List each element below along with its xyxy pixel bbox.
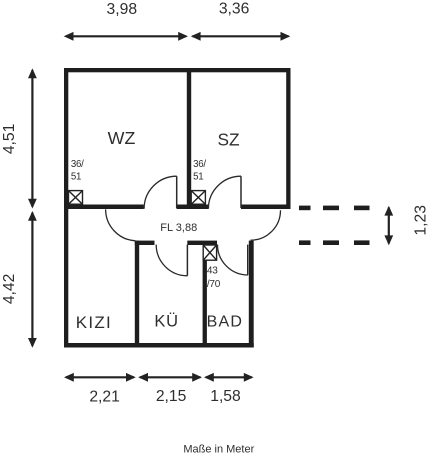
wall: top outer — [64, 68, 291, 72]
wall: SZ bottom segment — [241, 205, 291, 210]
door WZ: swing arc — [144, 176, 177, 209]
wall: FL top, middle segment — [177, 205, 209, 210]
svg-text:WZ: WZ — [108, 128, 136, 148]
door entrance: swing arc — [251, 210, 281, 240]
svg-text:Maße in Meter: Maße in Meter — [183, 444, 254, 456]
wall: right outer lower (BAD) — [249, 241, 254, 348]
svg-text:1,23: 1,23 — [412, 205, 429, 236]
svg-text:FL 3,88: FL 3,88 — [160, 222, 197, 234]
door SZ: leaf — [240, 176, 242, 208]
door BAD: leaf — [247, 245, 249, 275]
svg-text:2,21: 2,21 — [89, 389, 120, 406]
wall: FL bottom, segment B — [187, 241, 217, 245]
svg-text:KIZI: KIZI — [76, 313, 112, 332]
svg-text:/70: /70 — [207, 279, 221, 290]
dimension bottom 2,21 — [64, 373, 136, 382]
svg-text:BAD: BAD — [207, 314, 244, 331]
svg-text:1,58: 1,58 — [210, 388, 241, 405]
wall: KUE/BAD divider — [203, 245, 207, 344]
wall: FL bottom, segment A — [135, 241, 155, 245]
wall: right outer upper (SZ) — [286, 68, 290, 209]
shaft box SZ 36/51 — [191, 191, 205, 205]
shaft box BAD 43/70 — [203, 245, 216, 260]
door WZ: leaf — [176, 176, 178, 208]
wall: left outer — [64, 68, 68, 348]
dimension top 3,98: line and arrowheads — [64, 32, 188, 41]
svg-text:SZ: SZ — [217, 130, 240, 150]
wall: KIZI/KUE divider — [135, 241, 139, 344]
dashed wall extension upper — [299, 206, 370, 211]
dimension top 3,36: line and arrowheads — [191, 32, 290, 41]
dimension bottom 2,15 — [138, 373, 202, 382]
svg-text:3,36: 3,36 — [219, 1, 250, 18]
svg-text:36/: 36/ — [71, 159, 84, 170]
dimension right 1,23 — [384, 206, 393, 245]
dashed wall extension lower — [299, 240, 370, 245]
svg-text:4,42: 4,42 — [1, 274, 18, 305]
door BAD: swing arc — [218, 245, 248, 275]
dimension left 4,42 — [28, 211, 37, 348]
svg-text:36/: 36/ — [193, 159, 206, 170]
svg-text:KÜ: KÜ — [154, 313, 179, 331]
svg-text:3,98: 3,98 — [107, 1, 138, 18]
dimension bottom 1,58 — [204, 373, 254, 382]
door KIZI: swing arc — [106, 209, 136, 240]
door KUE: swing arc — [156, 245, 187, 276]
svg-text:2,15: 2,15 — [156, 388, 187, 405]
svg-text:43: 43 — [207, 266, 218, 277]
wall: bottom outer — [64, 343, 254, 348]
dimension left 4,51 — [28, 68, 37, 208]
svg-text:4,51: 4,51 — [1, 124, 18, 155]
wall: WZ/SZ divider — [187, 72, 191, 205]
door SZ: swing arc — [208, 176, 241, 209]
svg-text:51: 51 — [193, 171, 203, 182]
svg-text:51: 51 — [71, 171, 81, 182]
wall: FL top, left segment — [64, 205, 144, 210]
shaft box WZ 36/51 — [69, 191, 83, 205]
door KUE: leaf — [186, 245, 188, 276]
